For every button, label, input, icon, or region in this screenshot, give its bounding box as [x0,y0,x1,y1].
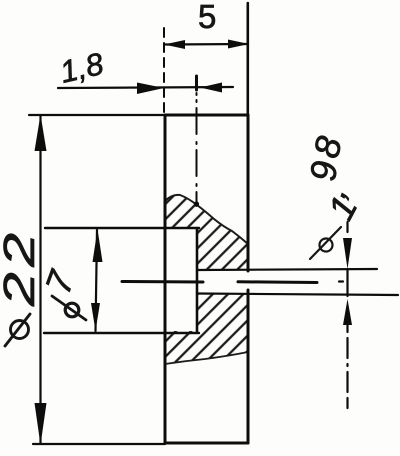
dim1.8 arrow right [137,83,164,95]
dim1.8 dimension line [58,87,233,88]
counterbore bottom edge / dim7 extension line [44,332,199,334]
dim5 arrow right [228,40,249,49]
dia7 diameter symbol [65,303,79,317]
top edge extension to left [29,114,165,116]
break line (top wavy boundary) [165,195,248,244]
dia22 dimension line [39,116,41,443]
part outline right edge lower [247,290,250,443]
dim1.8 extension tick [195,76,198,90]
dia22 arrow down [35,403,47,445]
small hole top edge / extension line [197,269,377,270]
dia7 arrow down [91,303,100,331]
svg-text:8: 8 [305,132,350,162]
dia1.98 dimension line lower (arrow up) [343,299,352,325]
dia7 arrow up [93,229,103,262]
svg-text:22: 22 [0,227,44,307]
part outline top edge [165,114,248,117]
dim5 extension line right [247,3,250,115]
svg-text:5: 5 [198,0,216,35]
hole axis centerline dot [339,280,343,282]
dim5 dimension line [165,43,248,46]
hole axis centerline [122,280,203,284]
dim1.8 arrow left [200,83,222,93]
small hole bottom edge / extension line [197,294,398,296]
dim5 arrow left [164,40,185,49]
dia22 arrow up [35,115,47,152]
bottom edge extension to left [33,443,165,445]
dia1.98 diameter symbol [320,239,333,252]
hatching (section fill) [160,190,255,370]
dia22 diameter symbol [11,321,29,339]
part outline right edge upper [247,115,250,271]
dia1.98 text [302,132,365,226]
svg-text:9: 9 [302,159,345,183]
dia1.98 dimension line upper (arrow down) [346,222,348,232]
counterbore top edge / dim7 extension line [45,227,199,229]
part outline left edge [164,115,167,443]
dia7 dimension line [96,230,98,331]
part outline bottom edge [165,442,248,445]
break line (bottom wavy boundary) [165,352,248,364]
counterbore bottom face [196,228,199,332]
vertical centerline at counterbore depth [196,93,198,206]
svg-text:1,8: 1,8 [57,46,108,90]
dim5 extension line left (dashed) [163,28,165,113]
